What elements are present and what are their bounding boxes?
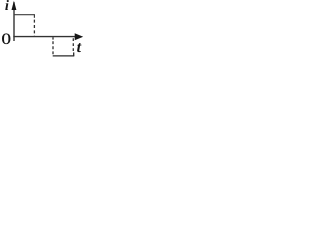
- positive pulse corner solid stub: [33, 14, 35, 18]
- svg-text:i: i: [5, 0, 9, 14]
- negative pulse right corner solid stub: [73, 52, 75, 56]
- i-axis arrowhead: [12, 1, 17, 10]
- negative pulse right dashed line: [72, 38, 74, 51]
- negative pulse left tick at axis: [52, 37, 54, 39]
- i-axis (vertical axis line): [13, 2, 15, 41]
- t-axis (horizontal axis line): [13, 36, 76, 38]
- positive pulse dashed drop line: [33, 20, 35, 37]
- svg-text:O: O: [1, 31, 11, 48]
- negative pulse bottom line: [53, 55, 75, 57]
- negative pulse left dashed line: [52, 41, 54, 55]
- svg-text:t: t: [77, 39, 82, 56]
- positive pulse top line: [14, 14, 34, 16]
- t-axis arrowhead: [75, 33, 84, 40]
- background: [0, 0, 84, 64]
